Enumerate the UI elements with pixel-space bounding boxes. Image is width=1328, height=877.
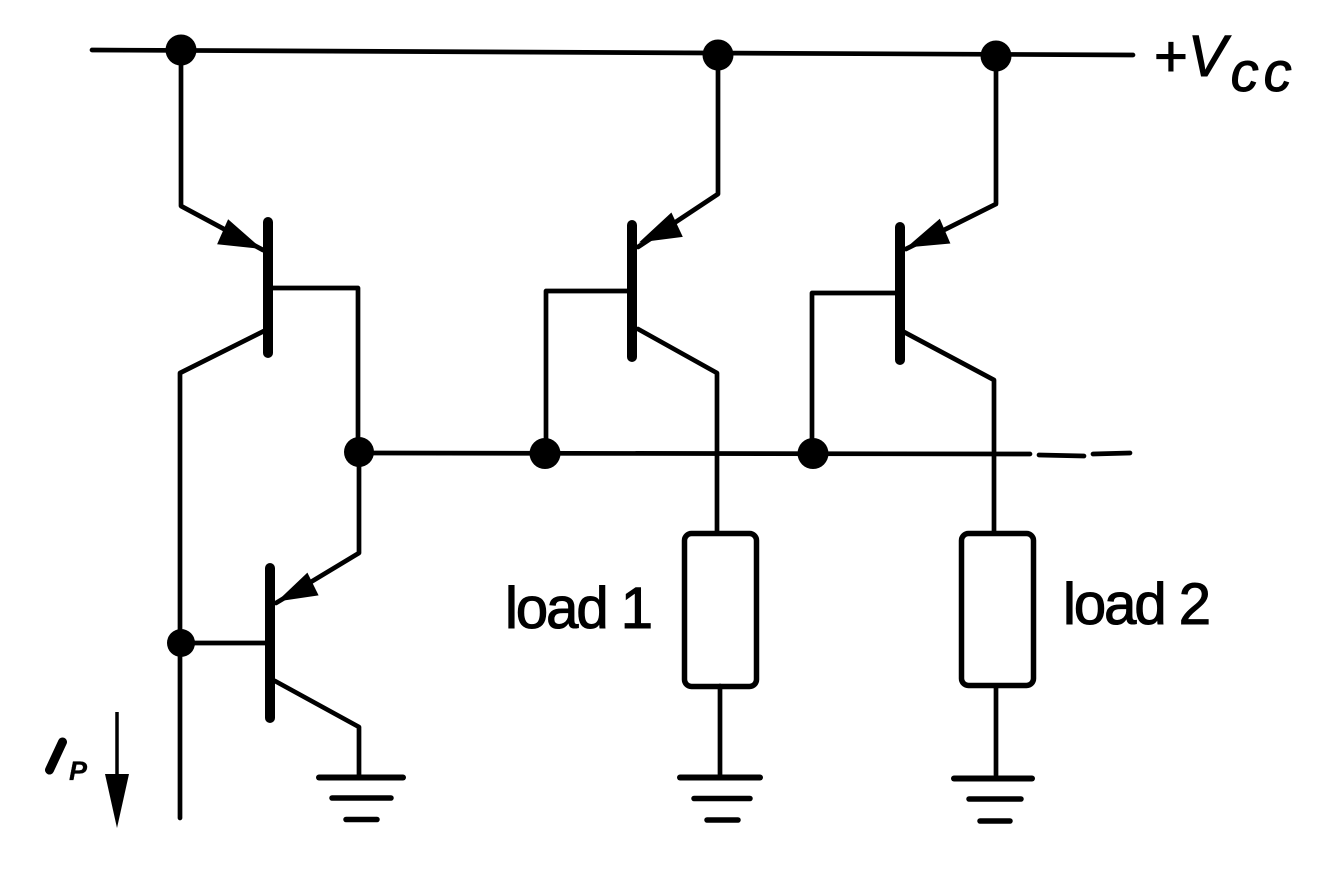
transistor Q3 emitter arrow bbox=[639, 213, 683, 243]
resistor load 1 box bbox=[685, 534, 757, 687]
wire Q3 emitter from rail bbox=[638, 54, 718, 247]
ground under load 1 bbox=[680, 778, 760, 821]
svg-text:load 1: load 1 bbox=[505, 576, 651, 641]
label Ip letter I bbox=[50, 742, 63, 770]
transistor Q2 emitter arrow bbox=[277, 573, 319, 602]
transistor Q2 bar bbox=[265, 568, 275, 718]
junction dot Q2 base bbox=[167, 629, 195, 657]
wire Q4 base to bus bbox=[812, 293, 895, 447]
wire Q1 base to node A bbox=[272, 288, 358, 445]
svg-text:load 2: load 2 bbox=[1063, 572, 1209, 637]
arrow Ip head bbox=[105, 774, 129, 828]
junction node A dot bbox=[344, 437, 374, 467]
svg-text:P: P bbox=[69, 756, 88, 786]
wire node A to Q2 emitter bbox=[276, 460, 359, 603]
junction dot bus Q3 base bbox=[530, 438, 561, 469]
ground under Q2 bbox=[319, 778, 403, 820]
wire Q1 emitter from rail bbox=[181, 50, 263, 250]
junction dot rail left bbox=[166, 35, 197, 66]
wire Q4 collector to load 2 bbox=[904, 332, 994, 531]
resistor load 2 box bbox=[962, 534, 1034, 686]
wire load 2 to ground bbox=[994, 688, 999, 775]
ground under load 2 bbox=[954, 779, 1032, 822]
transistor Q3 bar bbox=[627, 225, 637, 357]
wire bus dash 1 bbox=[1039, 455, 1084, 456]
wire bus dash 2 bbox=[1093, 453, 1130, 454]
wire load 1 to ground bbox=[718, 686, 723, 775]
transistor Q1 bar bbox=[263, 222, 273, 353]
wire Q2 base from left rail bbox=[181, 641, 265, 646]
wire Q4 emitter from rail bbox=[906, 56, 996, 249]
wire bus node A to right bbox=[359, 453, 1030, 454]
junction dot bus Q4 base bbox=[798, 438, 829, 469]
transistor Q4 emitter arrow bbox=[907, 219, 951, 248]
wire Q2 collector to ground bbox=[275, 681, 359, 775]
wire Q3 collector to load 1 bbox=[638, 329, 717, 531]
svg-text:+Vcc: +Vcc bbox=[1154, 24, 1297, 103]
junction dot rail right bbox=[981, 41, 1012, 72]
wire +Vcc supply rail bbox=[92, 50, 1133, 55]
wire Q1 collector down left rail bbox=[180, 331, 264, 818]
wire Q3 base to bus bbox=[546, 291, 627, 446]
transistor Q1 emitter arrow bbox=[217, 219, 262, 249]
junction dot rail middle bbox=[703, 40, 734, 71]
arrow Ip shaft bbox=[115, 712, 119, 778]
transistor Q4 bar bbox=[895, 227, 905, 360]
